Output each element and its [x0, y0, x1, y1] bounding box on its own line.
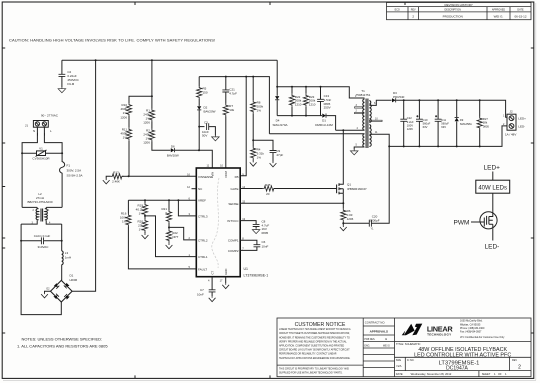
- svg-text:2.2uF: 2.2uF: [407, 120, 414, 124]
- svg-text:20: 20: [266, 192, 270, 196]
- wire N branch down to L2: [21, 153, 23, 207]
- svg-text:J1: J1: [25, 123, 29, 127]
- capacitor C9 47pF: [253, 140, 283, 167]
- svg-text:Milpitas, CA 95035: Milpitas, CA 95035: [460, 323, 481, 326]
- svg-text:CONTRACT NO.: CONTRACT NO.: [365, 320, 386, 324]
- 40W LEDs box: [476, 180, 510, 193]
- svg-text:2.46K: 2.46K: [112, 180, 120, 184]
- svg-text:50V: 50V: [202, 134, 207, 138]
- node: FB column on bus: [245, 76, 247, 78]
- node: snubber bus D4: [276, 86, 278, 88]
- svg-text:LTC Confidential-For Customer: LTC Confidential-For Customer Use Only: [460, 336, 505, 339]
- T1 pin 5 wire + ground: [350, 144, 364, 155]
- svg-text:INTVCC: INTVCC: [227, 219, 239, 223]
- svg-text:PERFORMANCE OR RELIABILITY. CO: PERFORMANCE OR RELIABILITY. CONTACT LINE…: [279, 353, 337, 356]
- wire CTRL3 from VREF: [178, 200, 196, 216]
- title row: [395, 341, 532, 358]
- svg-text:VREF: VREF: [198, 199, 206, 203]
- T1 pin 6 tap wire: [369, 100, 391, 105]
- bridge rectifier D1 HD06: [51, 273, 78, 302]
- svg-text:COMP1: COMP1: [228, 239, 239, 243]
- node: return rail left end: [388, 145, 390, 147]
- svg-text:R25: R25: [265, 183, 271, 187]
- svg-text:COMP2: COMP2: [228, 249, 239, 253]
- node: R8 column on bus: [252, 76, 254, 78]
- svg-text:REV: REV: [512, 359, 517, 362]
- svg-text:FAULT: FAULT: [198, 267, 207, 271]
- node: snubber bus C13: [320, 86, 322, 88]
- svg-text:REVISION HISTORY: REVISION HISTORY: [444, 3, 472, 7]
- svg-text:WEI G: WEI G: [383, 345, 390, 347]
- svg-text:CT: CT: [210, 270, 214, 274]
- wire VINSENSE line: [129, 175, 197, 177]
- connector J1: [25, 121, 52, 133]
- revision history table: [387, 3, 532, 20]
- inductor L3: [62, 241, 71, 281]
- svg-text:10k: 10k: [229, 108, 234, 112]
- common-mode choke L2: [21, 192, 62, 225]
- node: sense junction: [342, 202, 344, 204]
- resistor R6 0.03: [341, 203, 354, 223]
- svg-text:R13: R13: [113, 171, 119, 175]
- wire between R10 R11: [128, 116, 130, 128]
- svg-text:ENG.: ENG.: [364, 345, 370, 347]
- node: VREF/R21 junction: [168, 199, 170, 201]
- svg-text:D4: D4: [276, 118, 280, 122]
- approvals column: [363, 320, 394, 367]
- node: C21 column on bus: [225, 76, 227, 78]
- resistor R16 100k: [120, 200, 131, 226]
- wire FB column: [240, 77, 246, 176]
- svg-text:BAV20W: BAV20W: [167, 154, 179, 158]
- PWM MOSFET symbol: [454, 212, 498, 229]
- LT logo: [402, 324, 454, 337]
- T1 pin 2 stub: [355, 110, 363, 114]
- wire CAC1 left down to bridge bottom: [21, 241, 61, 315]
- svg-text:LT3799EMSE-1: LT3799EMSE-1: [244, 274, 269, 278]
- VREF line wire: [128, 199, 196, 201]
- node: R10 top tee: [151, 95, 153, 97]
- svg-text:63V: 63V: [423, 125, 428, 129]
- pin numbers U1: [187, 164, 246, 283]
- op-amp/controller U1 LT3799EMSE-1: [196, 168, 268, 278]
- wire D6 to VIN node: [175, 150, 212, 168]
- svg-text:90 - 277VAC: 90 - 277VAC: [41, 113, 59, 117]
- svg-text:N/A: N/A: [397, 364, 402, 368]
- svg-text:560uF: 560uF: [423, 122, 431, 126]
- T1 aux sense wire to FB bus: [269, 133, 364, 135]
- svg-text:1%: 1%: [123, 111, 128, 115]
- svg-text:1%: 1%: [139, 228, 144, 232]
- svg-text:J2: J2: [510, 110, 514, 114]
- bridge left corner to earth ground E2: [45, 291, 51, 292]
- wire R16 to FAULT: [128, 227, 196, 269]
- wire rail corner down to snubber bus: [276, 60, 278, 87]
- resistor R21 0: [161, 200, 171, 223]
- svg-text:APPLICATION. COMPONENT SUBSTIT: APPLICATION. COMPONENT SUBSTITUTION AND …: [279, 345, 345, 348]
- svg-text:C10: C10: [423, 118, 428, 122]
- node: VREF/R19 junction: [144, 199, 146, 201]
- svg-text:CUSTOMER NOTICE: CUSTOMER NOTICE: [295, 322, 346, 328]
- node: VINSENSE divider tap: [128, 175, 130, 177]
- svg-text:CIRCUIT BOARD LAYOUT MAY SIGNI: CIRCUIT BOARD LAYOUT MAY SIGNIFICANTLY A…: [279, 349, 350, 352]
- node: D6/C3 column junction: [198, 149, 200, 151]
- wire R10 top line: [129, 96, 152, 103]
- fuse F1: [60, 153, 83, 207]
- svg-text:PCB DES.: PCB DES.: [364, 339, 375, 341]
- LED return rail wire: [389, 126, 507, 146]
- wire D2 to VIN node: [198, 110, 200, 150]
- svg-text:1. ALL CAPACITORS AND RESISTOR: 1. ALL CAPACITORS AND RESISTORS ARE 0805: [17, 344, 108, 349]
- wire L2 pin3 to CAC1 left: [20, 224, 22, 241]
- svg-text:APPROVALS: APPROVALS: [370, 329, 388, 333]
- svg-text:FB: FB: [235, 175, 239, 179]
- svg-text:LED+: LED+: [518, 117, 526, 121]
- svg-text:TITLE: SCHEMATIC: TITLE: SCHEMATIC: [396, 342, 420, 346]
- node: output rail junction x=403.7 y=100.3: [403, 99, 405, 101]
- svg-text:CTRL2: CTRL2: [198, 238, 208, 242]
- svg-text:GATE: GATE: [231, 187, 239, 191]
- ground GND pin 17: [225, 277, 227, 284]
- svg-text:C11: C11: [441, 118, 446, 122]
- svg-text:47pF: 47pF: [276, 153, 283, 157]
- svg-text:PWM: PWM: [454, 220, 470, 227]
- svg-text:D1: D1: [70, 273, 74, 277]
- node: rail/bridge riser junction: [95, 59, 97, 61]
- title block: [277, 318, 531, 377]
- transformer T1 750811751: [356, 89, 372, 148]
- svg-text:1206: 1206: [347, 217, 354, 221]
- svg-text:IPB60R160CP: IPB60R160CP: [347, 187, 367, 191]
- svg-text:SS-5H-2.5A: SS-5H-2.5A: [67, 173, 83, 177]
- svg-text:APPROVED: APPROVED: [492, 8, 506, 11]
- svg-text:Phone: (408)432-1900: Phone: (408)432-1900: [460, 327, 485, 330]
- capacitor C20 2200pF Y1: [343, 146, 389, 230]
- svg-text:1206: 1206: [143, 121, 150, 125]
- svg-text:IC NO.: IC NO.: [407, 359, 415, 362]
- svg-text:C3: C3: [204, 121, 208, 125]
- svg-text:DMR1U-10M: DMR1U-10M: [315, 123, 333, 127]
- svg-text:AI: AI: [385, 338, 388, 341]
- node: output rail junction x=438.1 y=100.3: [437, 99, 439, 101]
- diode D1 DMR1U-10M: [315, 114, 333, 128]
- svg-text:TECHNOLOGY APPLICATIONS ENGINE: TECHNOLOGY APPLICATIONS ENGINEERING FOR …: [279, 357, 351, 360]
- size / IC no row: [395, 357, 532, 371]
- wire J1-L down-right: [44, 127, 62, 153]
- svg-text:63V: 63V: [441, 125, 446, 129]
- resistor R1 249k: [143, 109, 154, 125]
- svg-text:DATE:: DATE:: [396, 372, 404, 376]
- TVS diode D4 SMAJ170A: [272, 87, 287, 127]
- svg-text:TECHNOLOGY: TECHNOLOGY: [427, 332, 452, 336]
- node: output rail junction x=479.7 y=100.3: [479, 99, 481, 101]
- svg-text:LED+: LED+: [484, 165, 501, 172]
- MOSFET Q1 IPB60R160CP: [337, 183, 367, 195]
- svg-text:CAUTION: HANDLING HIGH VOLTAGE: CAUTION: HANDLING HIGH VOLTAGE INVOLVES …: [9, 38, 215, 43]
- capacitor C21 4.7pF: [222, 77, 237, 96]
- svg-text:1%: 1%: [257, 109, 262, 113]
- resistor R5 150: [197, 77, 208, 99]
- svg-text:1210: 1210: [295, 102, 302, 106]
- node: R21/R22 tap: [168, 226, 170, 228]
- svg-text:150: 150: [203, 91, 208, 95]
- svg-text:750811751: 750811751: [356, 93, 371, 97]
- resistor R7 10k: [223, 92, 234, 117]
- svg-text:1mH: 1mH: [65, 256, 71, 260]
- resistor R25 20 gate: [240, 183, 336, 196]
- svg-text:1%: 1%: [123, 136, 128, 140]
- wire between R1 R2: [151, 122, 153, 129]
- node: snubber bus R23: [305, 86, 307, 88]
- svg-text:D9: D9: [460, 118, 464, 122]
- svg-text:10nF: 10nF: [262, 244, 269, 248]
- svg-text:REV: REV: [411, 8, 416, 11]
- wire R1 column from rail: [151, 60, 153, 108]
- FB network top bus wire: [199, 77, 269, 134]
- svg-text:1%: 1%: [122, 220, 127, 224]
- wire LED box to PWM fet: [492, 193, 494, 212]
- snubber top bus wire: [277, 87, 364, 98]
- svg-text:OF: OF: [498, 372, 502, 376]
- node: C3 branch: [198, 126, 200, 128]
- svg-text:SENSE: SENSE: [228, 202, 238, 206]
- capacitor C3 10nF 50V: [199, 121, 219, 141]
- resistor R20 20k: [137, 216, 148, 239]
- svg-text:SHEET: SHEET: [482, 372, 491, 376]
- svg-text:300V, 2.5A: 300V, 2.5A: [67, 168, 82, 172]
- svg-text:CIRCUIT THAT MEETS CUSTOMER-SU: CIRCUIT THAT MEETS CUSTOMER-SUPPLIED SPE…: [279, 332, 350, 335]
- svg-text:06-15-12: 06-15-12: [514, 14, 526, 18]
- svg-text:OPT: OPT: [172, 235, 178, 239]
- svg-text:Wednesday, November 28, 2012: Wednesday, November 28, 2012: [411, 372, 452, 376]
- wire CTRL1 from R19/R20 tap: [145, 216, 196, 257]
- svg-text:1%: 1%: [139, 212, 144, 216]
- svg-text:0805: 0805: [262, 231, 269, 235]
- svg-text:SMAJ58A: SMAJ58A: [460, 122, 472, 126]
- node: snubber bus R22: [291, 86, 293, 88]
- connector J2: [503, 110, 526, 137]
- svg-text:1210: 1210: [309, 102, 316, 106]
- svg-text:560uF: 560uF: [441, 122, 449, 126]
- svg-text:LINEAR TECHNOLOGY HAS MADE A B: LINEAR TECHNOLOGY HAS MADE A BEST EFFORT…: [279, 328, 351, 331]
- T1 pin 11 wire to secondary return: [369, 131, 389, 146]
- node: bottom bus R22 junction: [291, 115, 293, 117]
- TVS diode D9 SMAJ58A: [455, 100, 472, 146]
- svg-text:B82733-0751A030: B82733-0751A030: [27, 200, 52, 204]
- svg-text:C22: C22: [407, 116, 412, 120]
- svg-text:Fax: (408)434-0507: Fax: (408)434-0507: [460, 331, 482, 334]
- svg-text:10nF: 10nF: [197, 292, 204, 296]
- SENSE wire: [240, 202, 343, 204]
- svg-text:V1: V1: [39, 147, 43, 151]
- node: rail/R1 junction: [151, 59, 153, 61]
- capacitor C8 4.7uF INTVCC: [240, 220, 269, 235]
- wire drain down to Q1: [339, 130, 343, 184]
- svg-text:PDU540: PDU540: [393, 95, 405, 99]
- wire PWM fet to LED-: [492, 229, 494, 241]
- diode D2 BAV20W: [197, 99, 216, 114]
- svg-text:DESCRIPTION: DESCRIPTION: [445, 8, 462, 11]
- wire LED+ to LED box: [492, 172, 494, 181]
- svg-text:WEI G.: WEI G.: [494, 14, 504, 18]
- svg-text:CAC1 0.1uF: CAC1 0.1uF: [34, 234, 51, 238]
- resistor R8 200k: [251, 77, 264, 114]
- svg-text:NOTES: UNLESS OTHERWISE SPECIF: NOTES: UNLESS OTHERWISE SPECIFIED:: [22, 336, 103, 341]
- svg-text:CV36SH10R: CV36SH10R: [32, 156, 50, 160]
- svg-text:310VAC: 310VAC: [38, 245, 50, 249]
- svg-text:DATE: DATE: [517, 8, 524, 11]
- node: bottom bus R23 junction: [305, 115, 307, 117]
- capacitor CAC1: [20, 234, 63, 249]
- capacitor C7 10nF CT: [197, 277, 216, 302]
- wire R8 to R4 node: [252, 113, 254, 140]
- svg-text:1206: 1206: [407, 127, 413, 131]
- capacitor C6 10nF COMP: [240, 240, 268, 250]
- LED+ output rail wire: [396, 100, 507, 117]
- svg-text:CTRL3: CTRL3: [198, 214, 208, 218]
- node: output rail junction x=419.4 y=100.3: [418, 99, 420, 101]
- svg-text:GND: GND: [224, 269, 228, 275]
- svg-text:VIN: VIN: [211, 172, 215, 177]
- diode D6 BAV20W: [167, 145, 179, 158]
- NC pin stub: [192, 188, 197, 190]
- resistor R10 499k: [120, 103, 131, 119]
- svg-text:D1: D1: [322, 119, 326, 123]
- resistor R22 200k 1210: [289, 87, 301, 116]
- wire R11 to VINSENSE node: [128, 141, 130, 177]
- svg-text:ECO: ECO: [395, 8, 400, 11]
- svg-text:D6: D6: [171, 145, 175, 149]
- svg-text:R27: R27: [483, 117, 488, 121]
- svg-text:N: N: [33, 129, 35, 133]
- resistor R13 2.46K horizontal: [103, 171, 129, 184]
- node: output rail junction x=456.7 y=100.3: [456, 99, 458, 101]
- svg-text:SIZE: SIZE: [396, 359, 402, 362]
- resistor R22 OPT: [166, 229, 179, 249]
- svg-text:LED-: LED-: [518, 125, 525, 129]
- resistor R11 499k: [120, 128, 131, 141]
- svg-text:HD06: HD06: [70, 278, 78, 282]
- capacitor C2 0.22uF film: [58, 60, 79, 93]
- ground below R6: [342, 223, 344, 225]
- svg-text:THIS CIRCUIT IS PROPRIETARY TO: THIS CIRCUIT IS PROPRIETARY TO LINEAR TE…: [279, 367, 349, 370]
- svg-text:PRODUCTION: PRODUCTION: [443, 14, 463, 18]
- svg-text:L3: L3: [65, 251, 69, 255]
- svg-text:2: 2: [518, 365, 521, 371]
- wire bridge right corner up to AC rail: [72, 60, 96, 291]
- wire D1 to drain/pin4: [327, 116, 365, 131]
- svg-text:2200pF: 2200pF: [369, 219, 379, 223]
- LTC address: [460, 320, 505, 339]
- svg-text:250V: 250V: [324, 106, 331, 110]
- wire Q1 source to sense node: [342, 193, 344, 203]
- svg-text:1206: 1206: [120, 115, 127, 119]
- svg-text:SMAJ170A: SMAJ170A: [272, 123, 287, 127]
- wire R2 bottom to D6: [152, 142, 171, 151]
- svg-text:SUPPLIED FOR USE WITH LINEAR T: SUPPLIED FOR USE WITH LINEAR TECHNOLOGY …: [279, 371, 343, 374]
- svg-text:FILM: FILM: [67, 82, 74, 86]
- date row: [395, 371, 532, 377]
- AC rail wire: [62, 59, 277, 61]
- wire CTRL2 from R21/R22 tap: [169, 227, 196, 240]
- svg-text:1A / 48V: 1A / 48V: [505, 133, 516, 137]
- svg-text:1%: 1%: [257, 155, 262, 159]
- T1 pin 3 stub: [355, 104, 363, 108]
- node: drain junction: [342, 129, 344, 131]
- wire R7 to DCM pin: [225, 117, 227, 169]
- svg-text:DCM: DCM: [224, 170, 228, 177]
- capacitor C13 1.5nF 250V: [317, 87, 331, 116]
- svg-text:40W LEDs: 40W LEDs: [478, 185, 507, 191]
- resistor R4 9.31k: [250, 140, 265, 166]
- svg-text:28k: 28k: [483, 121, 488, 125]
- svg-text:1206: 1206: [143, 141, 150, 145]
- node: R8/R4/C9 junction: [252, 139, 254, 141]
- capacitor C22 2.2uF 100V: [400, 100, 414, 146]
- node: R19/R20 tap: [144, 215, 146, 217]
- svg-text:4.7pF: 4.7pF: [229, 92, 237, 96]
- node: VREF/CTRL3 junction: [177, 199, 179, 201]
- svg-text:BAV20W: BAV20W: [204, 110, 216, 114]
- svg-text:LED-: LED-: [485, 244, 500, 251]
- resistor R2 249k: [143, 129, 154, 145]
- varistor V1: [21, 147, 63, 161]
- customer notice box: [277, 322, 363, 375]
- svg-text:100V: 100V: [407, 123, 413, 127]
- svg-text:HOWEVER, IT REMAINS THE CUSTOM: HOWEVER, IT REMAINS THE CUSTOMER'S RESPO…: [279, 336, 350, 339]
- resistor R27: [477, 100, 489, 146]
- svg-text:U1: U1: [244, 267, 249, 271]
- capacitor C11 560uF 63V: [435, 100, 450, 146]
- diode D3 PDU540: [392, 91, 405, 102]
- svg-text:1630 McCarthy Blvd.: 1630 McCarthy Blvd.: [460, 320, 483, 323]
- snubber bottom bus wire: [277, 115, 322, 117]
- resistor R23 200k 1210: [303, 87, 315, 116]
- node: R6/C20 junction: [342, 222, 344, 224]
- svg-text:F1: F1: [67, 163, 71, 167]
- svg-text:CTRL1: CTRL1: [198, 255, 208, 259]
- wire L2 pin4 to CAC1 right: [61, 224, 63, 241]
- resistor R19 40.2k: [136, 200, 148, 216]
- capacitor C10 560uF 63V: [416, 100, 431, 146]
- svg-text:0805: 0805: [483, 124, 489, 128]
- wire J1-N down-left: [22, 127, 38, 153]
- svg-text:VERIFY PROPER AND RELIABLE OPE: VERIFY PROPER AND RELIABLE OPERATION IN …: [279, 340, 347, 343]
- T1 pin 10 stub: [369, 117, 382, 121]
